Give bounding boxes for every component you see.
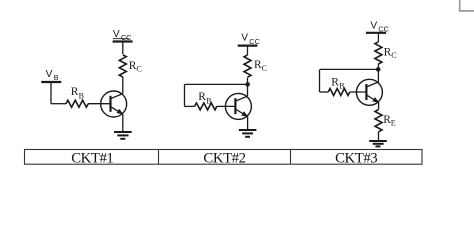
- wire VCC to RC: [247, 46, 249, 55]
- wire RB to base (CKT#3): [350, 91, 367, 93]
- node VCC (supply terminal bar, CKT#3): [366, 32, 386, 34]
- label CKT#2: [203, 151, 245, 167]
- label RC (CKT#3): [384, 46, 397, 60]
- wire RB to base (CKT#2): [217, 105, 236, 107]
- label RC (CKT#1): [129, 60, 142, 74]
- resistor RC (CKT#3): [375, 42, 382, 64]
- label VCC (CKT#2): [241, 33, 260, 46]
- wire collector Q1 up to RC: [122, 77, 124, 94]
- table divider 1: [158, 150, 160, 165]
- node VCC (supply terminal bar, CKT#1): [113, 40, 133, 42]
- wire RC to collector: [247, 78, 249, 97]
- resistor RB (CKT#1): [66, 100, 88, 107]
- svg-text:C: C: [136, 65, 141, 74]
- junction dot (CKT#2): [245, 82, 250, 87]
- node VCC (supply terminal bar, CKT#2): [238, 44, 258, 46]
- svg-text:CC: CC: [249, 37, 260, 46]
- ground (CKT#2): [239, 130, 257, 137]
- svg-text:V: V: [46, 69, 53, 80]
- transistor Q2 (NPN, CKT#2): [225, 93, 251, 119]
- transistor Q1 (NPN, CKT#1): [101, 91, 127, 117]
- wire emitter Q1 down to ground: [122, 114, 124, 132]
- label CKT#3: [335, 151, 377, 167]
- wire VB stem down: [50, 82, 52, 104]
- wire RC to collector: [377, 64, 379, 82]
- svg-text:B: B: [339, 82, 344, 91]
- resistor RC (CKT#2): [244, 55, 251, 77]
- svg-text:V: V: [370, 20, 377, 31]
- wire to RB (CKT#2): [185, 105, 195, 107]
- svg-text:B: B: [54, 73, 59, 82]
- label VB: [46, 69, 59, 82]
- svg-text:CKT#3: CKT#3: [335, 151, 377, 167]
- table frame: [25, 150, 423, 165]
- transistor Q3 (NPN, CKT#3): [356, 79, 382, 105]
- wire RC to VCC bar: [122, 42, 124, 55]
- label RB (CKT#2): [198, 91, 211, 105]
- label VCC (CKT#1, underlined): [113, 29, 132, 42]
- ground (CKT#1): [114, 132, 132, 139]
- svg-text:C: C: [391, 51, 396, 60]
- resistor RB (CKT#3): [328, 89, 350, 96]
- wire emitter Q3 down to RE: [378, 103, 380, 110]
- label RE (CKT#3): [383, 114, 396, 128]
- wire RE to ground: [378, 132, 380, 141]
- svg-text:B: B: [206, 96, 211, 105]
- wire emitter Q2 down to ground: [247, 117, 249, 130]
- label RC (CKT#2): [254, 59, 267, 73]
- resistor RE (CKT#3): [375, 110, 382, 132]
- decorative gray corner top-right: [460, 0, 474, 11]
- svg-text:E: E: [391, 119, 396, 128]
- ground (CKT#3): [369, 141, 387, 146]
- wire feedback top (CKT#2): [185, 83, 248, 85]
- svg-text:CKT#1: CKT#1: [71, 151, 113, 167]
- junction dot (CKT#3): [376, 67, 381, 72]
- wire feedback left down (CKT#3): [319, 69, 321, 92]
- svg-text:CKT#2: CKT#2: [203, 151, 245, 167]
- wire to RB (CKT#3): [320, 91, 329, 93]
- svg-text:R: R: [198, 91, 206, 103]
- wire feedback left down (CKT#2): [184, 84, 186, 106]
- wire RB to base: [88, 103, 110, 105]
- wire VB to RB: [51, 103, 66, 105]
- svg-text:B: B: [79, 91, 84, 100]
- label RB (CKT#3): [331, 76, 344, 90]
- node VB (supply terminal bar, CKT#1): [41, 81, 61, 83]
- svg-text:CC: CC: [121, 33, 132, 42]
- label VCC (CKT#3): [370, 20, 389, 33]
- label RB (CKT#1): [71, 86, 84, 100]
- label CKT#1: [71, 151, 113, 167]
- wire VCC to RC: [377, 33, 379, 42]
- resistor RC (CKT#1): [119, 55, 126, 77]
- svg-text:R: R: [71, 86, 79, 98]
- wire feedback top (CKT#3): [320, 68, 378, 70]
- svg-text:V: V: [241, 33, 248, 44]
- table divider 2: [290, 150, 292, 165]
- svg-text:C: C: [262, 64, 267, 73]
- svg-text:R: R: [331, 76, 339, 88]
- resistor RB (CKT#2): [195, 103, 217, 110]
